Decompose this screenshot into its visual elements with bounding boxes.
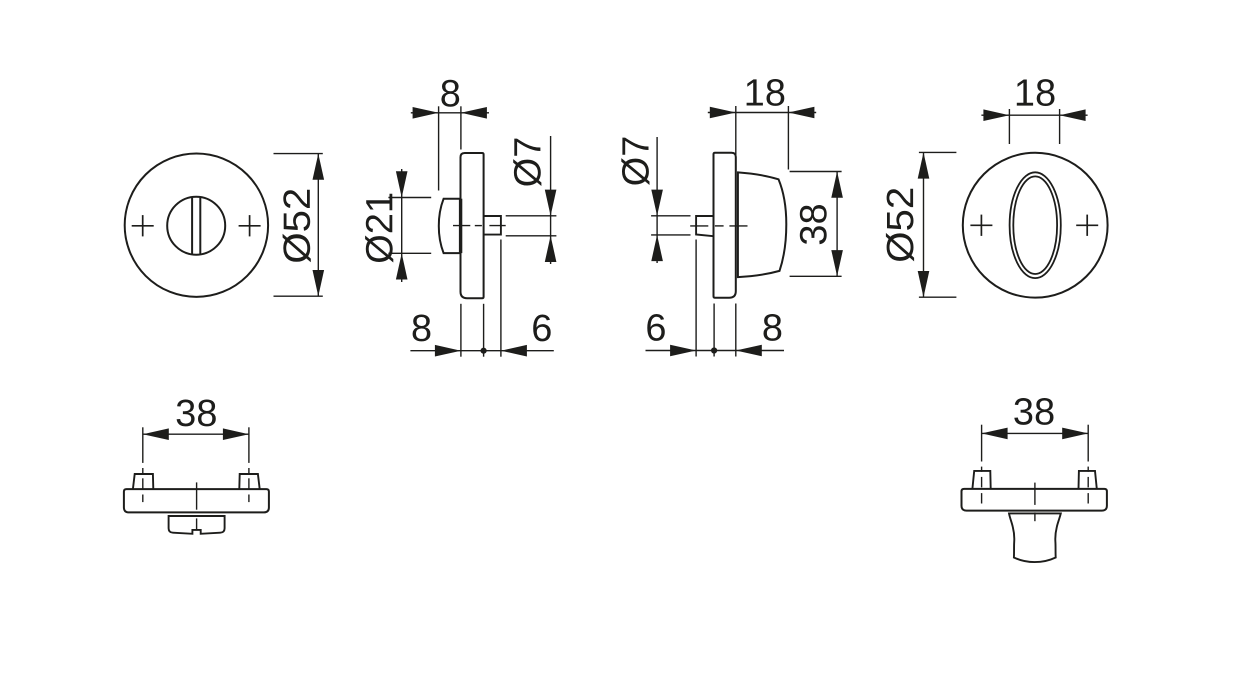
dim Ø7 view3 extension bottom [651, 234, 690, 236]
rosette 2 outer circle [963, 153, 1108, 298]
dim Ø52 view4 dimension line [923, 152, 925, 297]
dim Ø52 view1 extension line bottom [274, 295, 323, 297]
screw hole cross left [132, 215, 154, 236]
screw post right top view right rosette [1079, 471, 1097, 489]
thumbturn oval inner [1013, 176, 1057, 274]
centerline view 2 [453, 225, 506, 227]
dim 38 right dimension line [982, 432, 1089, 434]
dim 38 view3 dimension line [836, 172, 838, 277]
dim Ø7 view2 dimension line [550, 136, 552, 264]
dim Ø21 dimension line [401, 169, 403, 282]
dim 6 bottom label view3 [647, 314, 665, 341]
extension line plate front lower [460, 304, 462, 357]
dim 8 top extension line right [460, 106, 462, 149]
dim 38 view3 label [800, 205, 827, 244]
dim 8 top extension line left [438, 106, 440, 190]
screw post left top view right rosette [972, 471, 990, 489]
dim Ø21 extension top [388, 197, 431, 199]
top view plate thumbturn rosette [962, 489, 1107, 511]
coin slot left edge [191, 198, 193, 254]
dim Ø52 view1 label [283, 190, 311, 263]
dim Ø52 view4 arrow up [918, 152, 930, 178]
top view plate release rosette [124, 489, 269, 512]
dim Ø21 label [365, 194, 393, 263]
extension line plate back lower view3 [735, 304, 737, 357]
rosette plate side view 3 [714, 153, 736, 298]
dim separator dot view3 [711, 347, 717, 353]
dim Ø52 view1 arrow up [313, 154, 325, 180]
dim 38 view3 arrow up [831, 172, 843, 198]
dim Ø52 view1 dimension line [317, 154, 319, 297]
dim Ø52 view1 arrow down [313, 270, 325, 296]
thumbturn knob profile view 3 [738, 172, 786, 277]
dim Ø52 view4 extension bottom [919, 296, 957, 298]
dim 18 view3 label [747, 79, 785, 106]
dim 18 view4 label [1017, 79, 1055, 106]
thumbturn grip top view [1009, 513, 1061, 562]
dim Ø7 view2 extension bottom [506, 235, 557, 237]
post centerline left right-rosette [981, 425, 983, 504]
extension line plate back lower [483, 304, 485, 357]
dim 18 view4 extension right [1059, 109, 1061, 144]
dim 38 left arrow left [143, 428, 169, 440]
dim 6 bottom label [533, 315, 551, 342]
dim 8 top label [441, 80, 459, 107]
release button top view [169, 516, 225, 534]
dim 18 view3 extension right [787, 106, 789, 170]
rosette 1 outer circle [125, 154, 268, 297]
dim Ø7 view3 arrow up [651, 235, 663, 261]
dim 38 right arrow left [982, 428, 1008, 440]
screw post left top view [133, 474, 153, 489]
dim 6-8 bottom dimension line view3 [646, 350, 785, 352]
extension line spindle end lower [500, 240, 502, 357]
dim 8-6 bottom dimension line [410, 350, 553, 352]
dim Ø7 view3 label [621, 138, 649, 185]
dim 38 left label [177, 400, 216, 427]
screw hole cross left view4 [970, 215, 992, 236]
dim 18 view3 arrow left [710, 107, 736, 119]
dim 6 bottom arrow view3 [670, 345, 696, 357]
dim Ø7 view2 arrow up [545, 236, 557, 262]
dim Ø52 view4 label [886, 189, 914, 262]
dim Ø52 view1 extension line top [274, 153, 323, 155]
dim 38 view3 arrow down [831, 250, 843, 276]
extension line spindle end lower view3 [695, 240, 697, 357]
dim Ø7 view2 arrow down [545, 190, 557, 216]
dim 18 view4 arrow left [983, 109, 1009, 121]
extension line plate front lower view3 [713, 304, 715, 357]
coin slot right edge [199, 198, 201, 254]
dim 38 right label [1014, 398, 1053, 425]
dim Ø52 view4 arrow down [918, 271, 930, 297]
dim Ø7 view2 label [513, 139, 541, 186]
dim 18 view4 dimension line [981, 114, 1087, 116]
post centerline left [142, 427, 144, 502]
screw hole cross right view4 [1076, 215, 1098, 236]
dim Ø21 arrow down [396, 171, 408, 197]
dim 18 view3 arrow right [788, 107, 814, 119]
dim 18 view3 dimension line [708, 112, 816, 114]
dim Ø21 arrow up [396, 253, 408, 279]
dim Ø7 view3 dimension line [656, 137, 658, 263]
dim 38 view3 extension top [790, 171, 842, 173]
centerline view 3 [690, 225, 747, 227]
dim 38 left arrow right [223, 428, 249, 440]
dim Ø7 view2 extension top [506, 215, 557, 217]
dim 8 bottom label view3 [764, 314, 782, 341]
plate centerline bottom-left view [196, 482, 198, 530]
dim Ø21 extension bottom [388, 252, 431, 254]
dim 8 top dimension line [411, 112, 489, 114]
rosette plate side view 2 [461, 153, 484, 298]
dim 38 left dimension line [143, 433, 249, 435]
dim 18 view3 extension left [735, 106, 737, 166]
dim 6 bottom arrow [501, 345, 527, 357]
dim 18 view4 arrow right [1060, 109, 1086, 121]
post centerline right right-rosette [1087, 425, 1089, 504]
dim 8 bottom label [413, 315, 431, 342]
dim 8 bottom arrow [435, 345, 461, 357]
rosette 1 release hub circle [167, 197, 225, 255]
plate centerline bottom-right view [1034, 483, 1036, 522]
dim 18 view4 extension left [1008, 109, 1010, 144]
thumbturn oval outer [1010, 172, 1061, 278]
spindle stub view 2 [484, 216, 501, 235]
dim Ø52 view4 extension top [919, 151, 957, 153]
dim 8 top arrow left [413, 107, 439, 119]
release button profile view 2 [439, 199, 461, 253]
screw hole cross right [239, 215, 261, 236]
dim separator dot [481, 348, 487, 354]
dim 8 top arrow right [461, 107, 487, 119]
spindle stub view 3 [696, 216, 713, 236]
dim 38 view3 extension bottom [790, 275, 842, 277]
screw post right top view [239, 474, 259, 489]
dim 38 right arrow right [1062, 428, 1088, 440]
post centerline right [248, 427, 250, 502]
release button base edge (thick) [459, 199, 462, 253]
dim Ø7 view3 extension top [651, 215, 690, 217]
dim Ø7 view3 arrow down [651, 190, 663, 216]
dim 8 bottom arrow view3 [736, 345, 762, 357]
